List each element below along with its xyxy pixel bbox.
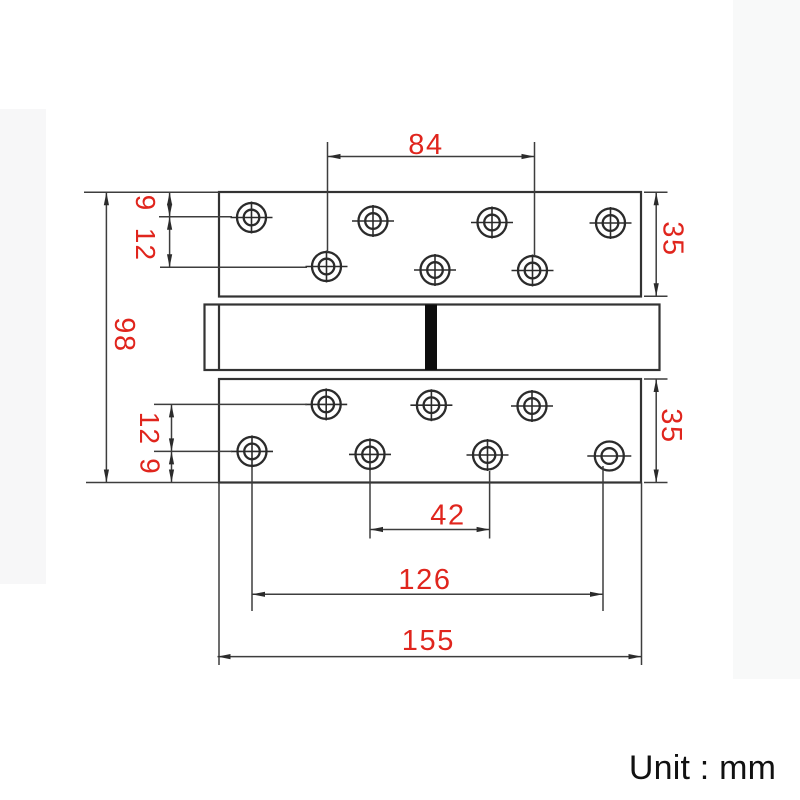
hinge barrel (205, 305, 660, 371)
svg-text:Unit : mm: Unit : mm (629, 749, 776, 787)
svg-text:12: 12 (134, 412, 165, 446)
svg-text:35: 35 (655, 408, 687, 443)
svg-text:98: 98 (108, 317, 140, 352)
hole B1-1 (305, 388, 347, 420)
hole T2-1 (306, 251, 348, 283)
hole B2-3 (467, 439, 509, 471)
dimension 98 (84, 192, 219, 482)
hole T1-3 (471, 207, 513, 239)
hole B2-2 (349, 438, 391, 470)
svg-text:12: 12 (130, 228, 161, 262)
hole T2-2 (414, 254, 456, 286)
background right strip (733, 0, 800, 679)
background left strip (0, 109, 46, 584)
hole T1-1 (231, 202, 273, 234)
hole T1-4 (590, 207, 632, 239)
hole B2-4 (587, 442, 631, 471)
dimension 42 (370, 470, 490, 539)
svg-text:9: 9 (130, 195, 161, 212)
svg-text:155: 155 (402, 625, 455, 657)
dimension 126 (252, 466, 603, 611)
dimension 35 (bottom right) (644, 379, 668, 483)
hole B1-2 (410, 389, 452, 421)
dimension 9 / 12 (top left) (159, 192, 307, 267)
bottom hinge leaf (219, 379, 641, 483)
dimension 84 (328, 142, 535, 256)
top hinge leaf (219, 192, 641, 297)
hole B2-1 (231, 435, 273, 467)
barrel knuckle line (218, 305, 220, 371)
dimension 12 / 9 (bottom left) (154, 404, 307, 482)
hole B1-3 (511, 390, 553, 422)
hole T1-2 (352, 205, 394, 237)
svg-text:35: 35 (657, 221, 689, 256)
svg-text:42: 42 (430, 500, 465, 532)
svg-text:84: 84 (408, 129, 443, 161)
hole T2-3 (512, 255, 554, 287)
svg-text:9: 9 (134, 458, 165, 475)
dimension 155 (218, 483, 642, 666)
dimension 35 (top right) (644, 192, 668, 296)
barrel pin bar (425, 305, 437, 371)
svg-text:126: 126 (398, 564, 451, 596)
